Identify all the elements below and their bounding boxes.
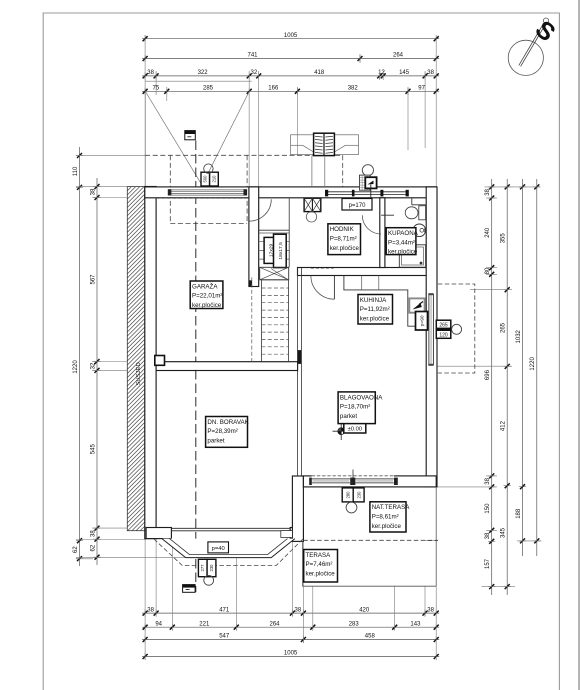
canopy dashed rect right side	[246, 155, 248, 223]
wall living south left block	[146, 528, 171, 539]
driveway left boundary line	[144, 92, 146, 187]
room label DN_BORAVAK	[206, 417, 248, 448]
svg-text:p=170: p=170	[349, 203, 367, 209]
svg-text:157: 157	[485, 558, 491, 569]
svg-text:P=11,92m²: P=11,92m²	[360, 306, 390, 313]
wall hodnik south band	[298, 268, 437, 276]
bottom extension lines	[145, 531, 436, 659]
svg-text:567: 567	[90, 274, 96, 285]
svg-text:p=90: p=90	[419, 315, 425, 326]
toilet tank	[419, 206, 426, 220]
svg-text:ker.pločice: ker.pločice	[372, 523, 402, 530]
svg-text:283: 283	[349, 621, 360, 627]
svg-text:1005: 1005	[284, 651, 298, 657]
terrace door label box 2	[353, 488, 364, 502]
kitchen door leaf	[333, 276, 335, 300]
blagovaona window mullion	[350, 478, 355, 485]
svg-text:420: 420	[359, 607, 370, 613]
garage door lines	[171, 189, 243, 191]
dimension chain right B 355-265-412-345	[501, 179, 511, 595]
bay window inner	[170, 539, 288, 555]
top window opening	[326, 188, 408, 197]
svg-text:277: 277	[200, 564, 205, 572]
svg-text:1005: 1005	[284, 33, 298, 39]
top window mullion 2	[380, 190, 383, 197]
blagovaona window right post	[394, 478, 398, 485]
svg-text:80: 80	[485, 267, 491, 274]
garage eaves line	[145, 80, 252, 82]
wall partition living/blagovaona	[297, 268, 299, 476]
svg-text:GARAŽA: GARAŽA	[192, 282, 218, 290]
dormer inner lines	[291, 144, 303, 146]
bay p=40 label box	[208, 542, 229, 553]
terrace step left	[281, 531, 293, 538]
svg-text:TERASA: TERASA	[306, 552, 332, 559]
stair lower flight dashed	[252, 269, 289, 362]
right extension lines	[425, 187, 542, 587]
svg-text:32: 32	[251, 70, 258, 76]
level marker box	[344, 423, 366, 433]
kitchen counter	[344, 276, 426, 327]
section dashed line	[195, 141, 197, 593]
top window mullion 1	[352, 190, 355, 197]
level marker symbol	[338, 428, 345, 435]
left extension lines	[76, 155, 186, 559]
svg-text:38: 38	[295, 607, 302, 613]
bay window dashed overhang	[154, 539, 303, 565]
svg-text:P=18,70m²: P=18,70m²	[340, 404, 370, 411]
garage-hodnik door arc	[249, 199, 271, 221]
right window label box	[436, 320, 451, 338]
wall partition black stub	[297, 350, 301, 364]
svg-text:500: 500	[203, 175, 208, 183]
svg-text:210: 210	[211, 175, 216, 183]
svg-text:DN. BORAVAK: DN. BORAVAK	[207, 419, 249, 426]
kitchen door opening	[311, 269, 335, 275]
svg-text:ker.pločice: ker.pločice	[330, 245, 360, 252]
terrace left edge	[301, 541, 303, 586]
svg-text:547: 547	[219, 634, 230, 640]
svg-text:38: 38	[427, 70, 434, 76]
terrace dashed divider	[303, 539, 438, 541]
dimension chain right D 1220	[530, 179, 540, 556]
garage column	[155, 356, 165, 366]
garage door label box 2	[210, 172, 219, 186]
svg-text:1220: 1220	[73, 360, 79, 374]
wall kupaona west	[380, 198, 385, 268]
wall left exterior	[145, 187, 156, 539]
dimension line top 38-322-32-418-12-145-38	[142, 70, 439, 79]
dormer rectangle	[291, 135, 359, 155]
stair label box 18x17	[274, 234, 287, 267]
flue line 2	[324, 156, 326, 187]
dimension chain left outer 110-1220-62	[73, 147, 83, 566]
svg-text:KUHINJA: KUHINJA	[360, 297, 387, 304]
svg-text:285: 285	[203, 86, 214, 92]
right window label divider	[436, 328, 451, 331]
level marker cross lines	[333, 430, 350, 432]
svg-text:741: 741	[247, 53, 258, 59]
svg-text:P=3,44m²: P=3,44m²	[388, 239, 415, 246]
stair cross box	[260, 267, 289, 280]
svg-text:322: 322	[198, 70, 209, 76]
dimension line top 741/264	[142, 53, 439, 62]
canopy dashed rect left side	[169, 155, 171, 223]
svg-text:38: 38	[485, 532, 491, 539]
svg-text:145: 145	[399, 70, 410, 76]
svg-text:38: 38	[427, 607, 434, 613]
blagovaona window opening	[312, 477, 394, 486]
dimension line bottom 38-471-38-420-38	[142, 607, 439, 616]
svg-text:parket: parket	[207, 438, 224, 445]
right window band	[430, 294, 432, 365]
dimension chain right C 1032-188	[516, 179, 526, 556]
entrance doormat	[360, 175, 371, 190]
garage door label box 1	[201, 172, 210, 186]
dimension chain right A 38-240-80-696-38-150-38-157	[485, 179, 495, 595]
bay window label box 1	[198, 559, 207, 576]
svg-text:62: 62	[73, 546, 79, 553]
dimension line bottom 547-458	[142, 634, 439, 643]
blagovaona window glazing 2	[356, 478, 394, 480]
wall right exterior	[426, 187, 437, 487]
svg-text:P=22,01m²: P=22,01m²	[192, 293, 222, 300]
svg-text:110: 110	[73, 166, 79, 176]
svg-text:696: 696	[485, 369, 491, 380]
roof window box	[314, 133, 335, 155]
room label TERASA	[304, 550, 338, 583]
svg-text:265: 265	[501, 322, 507, 333]
stair upper flight	[259, 199, 290, 268]
svg-text:150: 150	[485, 503, 491, 514]
room label HODNIK	[328, 224, 361, 255]
wall garage-living divide	[156, 362, 298, 371]
kupaona door arc	[362, 215, 381, 234]
blagovaona window glazing 1	[312, 478, 350, 480]
shower tray	[399, 245, 425, 267]
svg-text:P=7,46m²: P=7,46m²	[306, 561, 333, 568]
svg-text:412: 412	[501, 420, 507, 431]
svg-text:38: 38	[147, 607, 154, 613]
svg-text:P=8,61m²: P=8,61m²	[372, 513, 399, 520]
garage door opening	[167, 188, 248, 197]
room label NAT_TERASA	[370, 502, 406, 532]
canopy dashed line full	[145, 154, 343, 156]
room label GARAZA	[190, 281, 223, 309]
svg-text:1032: 1032	[516, 329, 522, 343]
dimension line top 1005	[142, 33, 439, 42]
svg-text:545: 545	[90, 444, 96, 455]
svg-text:166: 166	[268, 86, 279, 92]
kupaona door leaf	[381, 214, 394, 216]
wall SE corner column	[292, 476, 303, 541]
svg-text:62: 62	[90, 544, 96, 551]
garage-hodnik door opening	[250, 199, 258, 221]
svg-text:230: 230	[356, 491, 361, 499]
blagovaona window center stub	[352, 470, 354, 480]
kitchen door arc	[311, 276, 335, 300]
kitchen counter dividers	[361, 276, 363, 290]
terrace door knob circle	[346, 502, 357, 513]
svg-text:38: 38	[485, 477, 491, 484]
svg-text:280: 280	[346, 491, 351, 499]
svg-text:P=8,71m²: P=8,71m²	[330, 235, 357, 242]
electric box top	[185, 131, 196, 140]
driveway right boundary line	[248, 92, 250, 187]
canopy dashed rect bottom	[170, 222, 247, 224]
terrace door label box 1	[342, 488, 353, 502]
right window knob circle	[452, 324, 462, 334]
wall blagovaona south band	[303, 476, 436, 487]
svg-text:230: 230	[209, 564, 214, 572]
svg-text:SUSJED: SUSJED	[136, 362, 142, 385]
page right edge shadow	[578, 0, 580, 690]
svg-text:264: 264	[269, 621, 280, 627]
svg-text:ker.pločice: ker.pločice	[360, 316, 390, 323]
svg-text:ker.pločice: ker.pločice	[306, 571, 336, 578]
svg-text:KUPAONA: KUPAONA	[388, 230, 419, 237]
svg-text:18x17,5: 18x17,5	[278, 242, 284, 260]
flue line 1	[311, 156, 313, 187]
blagovaona window head dashed	[312, 475, 394, 477]
svg-text:ker.pločice: ker.pločice	[192, 302, 222, 309]
svg-text:38: 38	[90, 530, 96, 537]
svg-text:parket: parket	[340, 413, 357, 420]
p=90 label box	[416, 312, 428, 331]
svg-text:ker.pločice: ker.pločice	[388, 249, 418, 256]
dimension chain left inner 38-567-32-545-38-62	[90, 178, 100, 565]
driveway V diagonal right	[203, 92, 249, 183]
svg-text:240: 240	[485, 227, 491, 238]
svg-text:458: 458	[365, 634, 376, 640]
balcony dashed outline	[438, 284, 475, 373]
svg-text:1220: 1220	[530, 357, 536, 371]
svg-text:355: 355	[501, 233, 507, 244]
svg-text:382: 382	[348, 86, 359, 92]
dimension line bottom 1005	[142, 651, 439, 660]
wall garage east end step	[249, 280, 252, 286]
svg-text:264: 264	[393, 53, 404, 59]
svg-text:38: 38	[147, 70, 154, 76]
svg-text:221: 221	[199, 621, 210, 627]
compass needle	[519, 23, 544, 65]
kitchen stove box	[409, 298, 424, 312]
kitchen door dashed head	[311, 267, 335, 269]
svg-text:120: 120	[439, 333, 448, 339]
canopy dashed right downturn	[342, 155, 344, 187]
kupaona door opening	[381, 215, 385, 234]
electric box bottom	[183, 585, 196, 593]
wall top exterior band	[145, 187, 436, 198]
svg-text:97: 97	[418, 86, 425, 92]
driveway V diagonal left	[145, 92, 200, 183]
svg-text:±0.00: ±0.00	[348, 427, 362, 433]
terrace bottom edge	[302, 585, 436, 587]
svg-text:12: 12	[378, 70, 385, 76]
p=170 label box	[342, 199, 372, 211]
blagovaona window left cap	[309, 478, 312, 485]
room label KUPAONA	[386, 228, 416, 255]
top extension lines	[145, 35, 436, 187]
right window top cap	[428, 293, 433, 295]
bay window knob circle	[204, 575, 214, 585]
svg-text:471: 471	[219, 607, 230, 613]
svg-text:188: 188	[516, 508, 522, 519]
compass circle	[508, 40, 543, 75]
svg-text:38: 38	[485, 188, 491, 195]
svg-text:38: 38	[90, 188, 96, 195]
right window bottom cap	[428, 364, 433, 366]
svg-text:NAT.TERASA: NAT.TERASA	[372, 504, 411, 511]
svg-text:265: 265	[439, 323, 448, 329]
svg-text:P=28,39m²: P=28,39m²	[207, 428, 237, 435]
dimension line top 75-285-166-382-97	[142, 86, 439, 95]
top window glazing	[326, 191, 408, 193]
room label BLAGOVAONA	[338, 392, 375, 424]
svg-text:HODNIK: HODNIK	[330, 226, 355, 233]
top window left cap	[325, 190, 328, 197]
wall garage east	[249, 187, 259, 287]
svg-text:32: 32	[90, 362, 96, 369]
right window opening	[427, 294, 436, 365]
compass tip circle	[543, 18, 548, 23]
entrance circle	[362, 165, 373, 176]
wall living south right block	[290, 528, 303, 539]
svg-text:345: 345	[501, 527, 507, 538]
bay window outer	[162, 539, 295, 558]
toilet bowl	[405, 207, 418, 219]
svg-text:143: 143	[410, 621, 421, 627]
washbasin	[413, 224, 426, 237]
bay window label box 2	[207, 559, 216, 576]
garage door knob circle	[204, 164, 213, 173]
top window right cap	[406, 190, 409, 197]
svg-text:BLAGOVAONA: BLAGOVAONA	[340, 394, 383, 401]
room label KUHINJA	[358, 295, 393, 325]
kupaona north notch	[411, 198, 413, 205]
svg-text:418: 418	[314, 70, 325, 76]
svg-text:94: 94	[155, 621, 162, 627]
svg-text:p=40: p=40	[212, 546, 225, 552]
bay window sill lines	[171, 527, 290, 529]
right window glazing	[428, 294, 430, 365]
stair label box 17x29	[264, 237, 277, 263]
shaft box double X	[304, 198, 321, 211]
terrace right edge	[435, 487, 437, 586]
hodnik small circle	[306, 212, 316, 222]
dimension line bottom 94-221-264-283-143	[142, 621, 439, 630]
